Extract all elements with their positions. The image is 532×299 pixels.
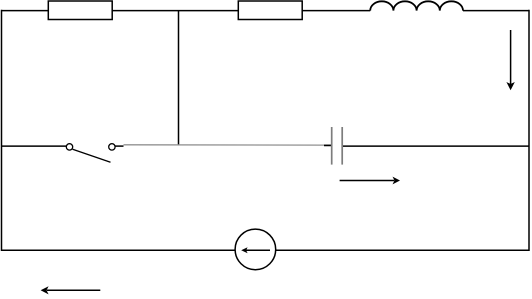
inductor L1: [370, 1, 463, 10]
switch S1: [66, 144, 115, 163]
arrow current direction right (under capacitor): [340, 177, 400, 185]
resistor R2: [238, 1, 302, 20]
wire capacitor right lead: [343, 145, 529, 147]
capacitor C1: [332, 127, 343, 165]
wire branch vertical: [178, 11, 180, 146]
wire right rail: [528, 10, 530, 251]
wire capacitor left lead: [324, 144, 331, 146]
wire top-right segment: [463, 10, 529, 12]
wire gray connector switch to capacitor: [124, 144, 325, 146]
wire switch right lead: [115, 145, 123, 147]
current source I1: [235, 229, 276, 270]
wire top-left segment: [2, 10, 371, 12]
wire bottom-left segment: [2, 249, 236, 251]
wire bottom-right segment: [276, 249, 529, 251]
resistor R1: [48, 1, 112, 20]
arrow current direction down (right side): [506, 30, 514, 90]
wire middle-left lead to switch: [2, 145, 67, 147]
arrow current direction left (bottom-left): [41, 286, 101, 294]
wire left rail: [1, 10, 3, 251]
